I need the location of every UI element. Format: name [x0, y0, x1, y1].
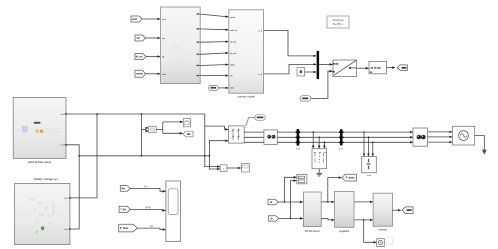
- svg-text:P_drive: P_drive: [120, 228, 129, 230]
- svg-text:5e-05 s.: 5e-05 s.: [333, 22, 344, 26]
- svg-text:id_ref: id_ref: [230, 41, 236, 44]
- svg-text:iq_ref: iq_ref: [230, 52, 236, 55]
- svg-text:B R: B R: [296, 149, 300, 151]
- svg-text:B W: B W: [339, 149, 344, 151]
- svg-text:wind turbine pmsg: wind turbine pmsg: [28, 160, 51, 164]
- svg-text:DC-DC boost: DC-DC boost: [305, 230, 320, 233]
- svg-text:Pw: Pw: [122, 188, 126, 190]
- svg-text:RPM: RPM: [146, 207, 151, 210]
- svg-text:inverter: inverter: [378, 229, 387, 232]
- svg-text:id_ref: id_ref: [136, 55, 143, 58]
- svg-text:regulator: regulator: [339, 230, 349, 233]
- svg-text:battery storage sys: battery storage sys: [34, 177, 58, 181]
- svg-text:P_dmac: P_dmac: [346, 178, 356, 180]
- svg-text:mode: mode: [136, 73, 143, 76]
- svg-text:wref: wref: [132, 18, 137, 21]
- svg-text:Vd: Vd: [137, 37, 141, 40]
- svg-text:load: load: [367, 175, 372, 177]
- svg-text:Tm: Tm: [144, 186, 147, 189]
- svg-text:vdc_m: vdc_m: [230, 30, 237, 32]
- svg-text:current_model: current_model: [238, 96, 256, 99]
- svg-text:wm: wm: [230, 88, 234, 90]
- svg-text:wref: wref: [230, 16, 235, 19]
- svg-text:T_Pu: T_Pu: [120, 209, 126, 211]
